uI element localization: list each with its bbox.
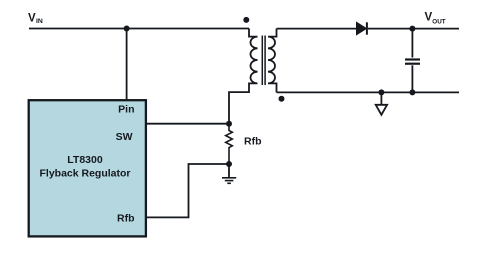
- transformer T1 primary winding: [229, 29, 258, 124]
- svg-text:Pin: Pin: [118, 104, 134, 116]
- node: capacitor bottom junction: [409, 89, 415, 95]
- label VIN: [28, 13, 43, 26]
- node: resistor bottom junction: [226, 161, 232, 167]
- wire: junction down to Pin: [126, 29, 128, 101]
- svg-text:Rfb: Rfb: [117, 213, 135, 225]
- op-amp U1: LT8300 Flyback Regulator box: [29, 100, 146, 236]
- wire: Rfb pin to resistor bottom: [146, 164, 229, 217]
- node: VIN/Pin junction: [124, 26, 130, 32]
- node: VOUT/capacitor junction: [409, 26, 415, 32]
- ground (chassis triangle) on output rail: [376, 92, 387, 114]
- svg-text:LT8300: LT8300: [67, 154, 103, 166]
- transformer core lines: [262, 36, 265, 86]
- svg-text:V: V: [425, 12, 433, 24]
- node: ground junction on bottom rail: [378, 89, 384, 95]
- wire: diode to VOUT rail end: [368, 28, 459, 30]
- node: SW/transformer/Rfb junction: [226, 121, 232, 127]
- diode D1: [357, 22, 367, 34]
- svg-text:V: V: [28, 13, 36, 25]
- svg-text:Rfb: Rfb: [244, 136, 262, 148]
- node: secondary polarity dot: [279, 96, 285, 102]
- svg-text:OUT: OUT: [432, 18, 445, 25]
- capacitor C1: [405, 29, 420, 93]
- wire: secondary top rail to diode: [277, 28, 357, 30]
- svg-text:Flyback Regulator: Flyback Regulator: [39, 168, 130, 180]
- node: primary polarity dot: [243, 17, 249, 23]
- wire: SW to transformer/resistor node: [146, 123, 229, 125]
- label VOUT: [425, 12, 446, 26]
- svg-text:IN: IN: [36, 18, 43, 25]
- wire: VIN top rail: [29, 28, 249, 30]
- ground (earth) below resistor: [222, 164, 236, 183]
- resistor Rfb: [226, 124, 233, 164]
- wire: secondary bottom rail: [277, 91, 460, 93]
- transformer T1 secondary winding: [268, 29, 277, 93]
- svg-text:SW: SW: [116, 131, 133, 143]
